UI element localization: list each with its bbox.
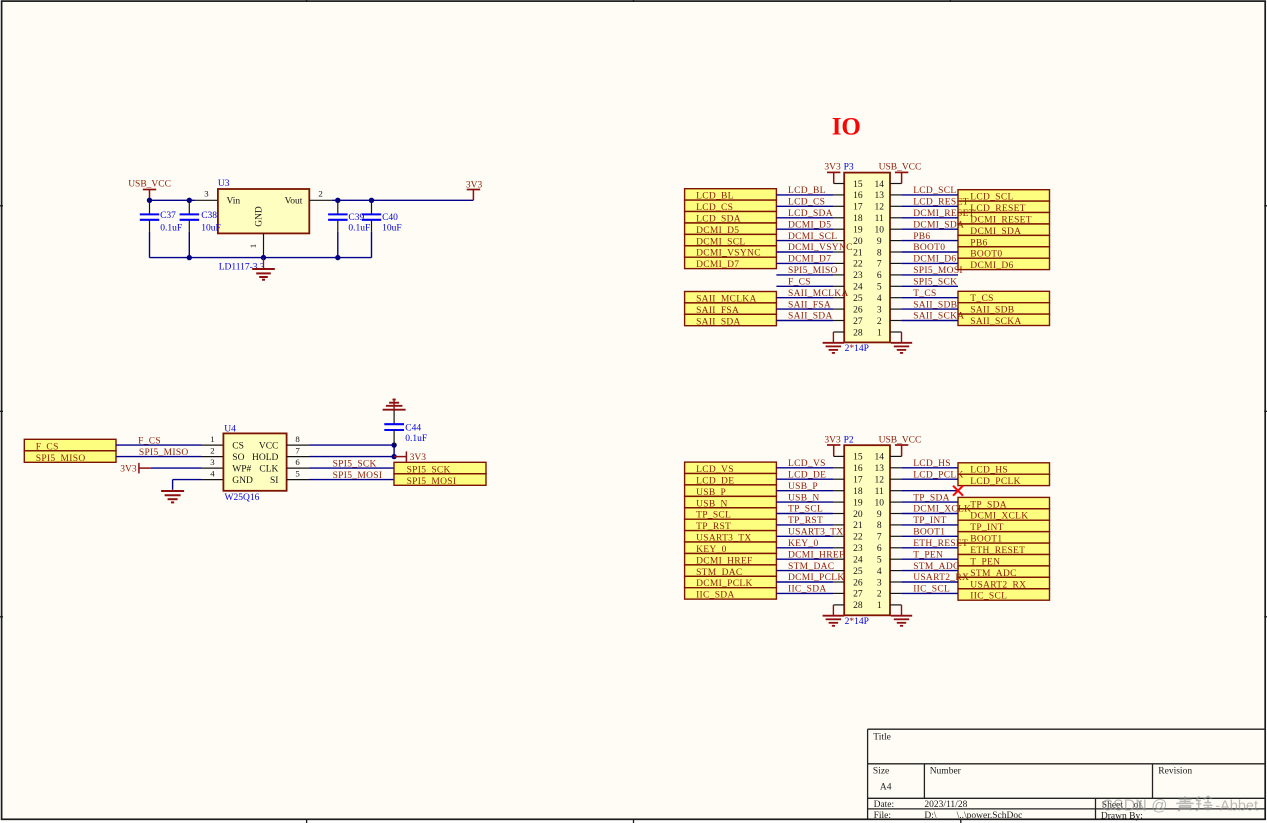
- svg-text:5: 5: [877, 283, 882, 293]
- svg-text:LCD_PCLK: LCD_PCLK: [913, 470, 963, 480]
- svg-text:IO: IO: [832, 113, 861, 140]
- svg-text:3V3: 3V3: [120, 464, 137, 474]
- svg-text:USB_VCC: USB_VCC: [879, 162, 922, 172]
- svg-text:2: 2: [210, 446, 214, 456]
- svg-text:3: 3: [204, 189, 209, 199]
- svg-text:11: 11: [875, 487, 884, 497]
- svg-text:TP_SDA: TP_SDA: [913, 493, 950, 503]
- svg-text:18: 18: [853, 214, 863, 224]
- svg-text:17: 17: [853, 203, 863, 213]
- svg-text:28: 28: [853, 328, 863, 338]
- svg-text:LCD_RESET: LCD_RESET: [913, 198, 968, 208]
- svg-text:LCD_SCL: LCD_SCL: [913, 186, 956, 196]
- svg-text:DCMI_D7: DCMI_D7: [788, 255, 831, 265]
- svg-text:SPI5_MISO: SPI5_MISO: [788, 266, 838, 276]
- svg-text:10: 10: [874, 226, 884, 236]
- svg-text:18: 18: [853, 487, 863, 497]
- svg-text:8: 8: [877, 521, 882, 531]
- svg-text:3V3: 3V3: [824, 162, 841, 172]
- svg-text:10uF: 10uF: [201, 224, 221, 234]
- svg-text:17: 17: [853, 476, 863, 486]
- svg-text:Revision: Revision: [1158, 767, 1192, 777]
- svg-text:8: 8: [877, 248, 882, 258]
- svg-text:14: 14: [874, 453, 884, 463]
- svg-text:C40: C40: [382, 213, 398, 223]
- svg-text:7: 7: [295, 446, 300, 456]
- svg-text:11: 11: [875, 214, 884, 224]
- svg-text:3: 3: [877, 578, 882, 588]
- svg-text:GND: GND: [255, 206, 265, 227]
- svg-text:Vin: Vin: [227, 197, 241, 207]
- svg-text:16: 16: [853, 191, 863, 201]
- svg-text:26: 26: [853, 305, 863, 315]
- svg-text:P2: P2: [844, 435, 854, 445]
- svg-text:21: 21: [853, 248, 863, 258]
- svg-text:3: 3: [877, 305, 882, 315]
- svg-text:LCD_CS: LCD_CS: [788, 198, 825, 208]
- svg-text:9: 9: [877, 237, 882, 247]
- svg-text:F_CS: F_CS: [788, 278, 811, 288]
- svg-text:4: 4: [877, 567, 882, 577]
- svg-text:12: 12: [874, 476, 884, 486]
- svg-text:10: 10: [874, 498, 884, 508]
- svg-text:DCMI_D6: DCMI_D6: [913, 255, 956, 265]
- svg-text:13: 13: [874, 191, 884, 201]
- svg-text:5: 5: [877, 556, 882, 566]
- svg-text:SAII_SCKA: SAII_SCKA: [913, 312, 964, 322]
- svg-text:C37: C37: [160, 211, 176, 221]
- svg-text:Vout: Vout: [285, 197, 303, 207]
- svg-text:File:: File:: [874, 811, 891, 821]
- svg-text:24: 24: [853, 283, 863, 293]
- svg-text:2*14P: 2*14P: [845, 617, 869, 627]
- svg-text:C39: C39: [348, 213, 364, 223]
- svg-text:9: 9: [877, 510, 882, 520]
- svg-text:27: 27: [853, 590, 863, 600]
- svg-text:SPI5_MISO: SPI5_MISO: [36, 454, 86, 464]
- svg-text:15: 15: [853, 180, 863, 190]
- svg-text:13: 13: [874, 464, 884, 474]
- svg-text:IIC_SCL: IIC_SCL: [970, 592, 1007, 602]
- svg-text:12: 12: [874, 203, 884, 213]
- svg-text:-Abbet: -Abbet: [1215, 799, 1258, 815]
- svg-text:19: 19: [853, 498, 863, 508]
- svg-text:CS: CS: [232, 441, 244, 451]
- svg-text:SAII_FSA: SAII_FSA: [788, 300, 831, 310]
- svg-text:ETH_RESET: ETH_RESET: [913, 539, 968, 549]
- svg-text:2*14P: 2*14P: [845, 344, 869, 354]
- svg-text:DCMI_D7: DCMI_D7: [696, 260, 739, 270]
- svg-text:20: 20: [853, 237, 863, 247]
- svg-text:2: 2: [877, 317, 882, 327]
- svg-text:LCD_DE: LCD_DE: [788, 470, 826, 480]
- svg-text:1: 1: [210, 434, 214, 444]
- svg-text:BOOT0: BOOT0: [913, 243, 945, 253]
- svg-text:USART2_RX: USART2_RX: [913, 573, 969, 583]
- svg-text:SI: SI: [270, 476, 278, 486]
- svg-text:DCMI_XCLK: DCMI_XCLK: [913, 505, 971, 515]
- svg-text:DCMI_PCLK: DCMI_PCLK: [788, 573, 845, 583]
- svg-text:T_CS: T_CS: [913, 289, 936, 299]
- svg-text:7: 7: [877, 260, 882, 270]
- svg-text:C38: C38: [201, 211, 217, 221]
- svg-text:USB_VCC: USB_VCC: [128, 179, 171, 189]
- svg-text:23: 23: [853, 271, 863, 281]
- svg-text:24: 24: [853, 556, 863, 566]
- svg-text:W25Q16: W25Q16: [225, 493, 260, 503]
- svg-text:25: 25: [853, 294, 863, 304]
- svg-text:SPI5_MOSI: SPI5_MOSI: [333, 471, 383, 481]
- svg-text:LCD_PCLK: LCD_PCLK: [970, 477, 1020, 487]
- svg-text:IIC_SDA: IIC_SDA: [696, 591, 735, 601]
- svg-text:8: 8: [295, 434, 300, 444]
- svg-text:LCD_HS: LCD_HS: [913, 459, 951, 469]
- svg-text:TP_INT: TP_INT: [913, 516, 946, 526]
- svg-text:A4: A4: [880, 783, 892, 793]
- svg-text:25: 25: [853, 567, 863, 577]
- svg-text:SPI5_SCK: SPI5_SCK: [333, 459, 377, 469]
- svg-text:KEY_0: KEY_0: [788, 539, 819, 549]
- svg-text:SPI5_MOSI: SPI5_MOSI: [407, 477, 457, 487]
- svg-text:SPI5_MISO: SPI5_MISO: [139, 448, 189, 458]
- svg-text:DCMI_D6: DCMI_D6: [970, 261, 1013, 271]
- svg-text:DCMI_VSYNC: DCMI_VSYNC: [788, 243, 853, 253]
- svg-text:4: 4: [210, 469, 215, 479]
- svg-text:SPI5_MOSI: SPI5_MOSI: [913, 266, 963, 276]
- svg-text:SAII_SDB: SAII_SDB: [913, 300, 957, 310]
- svg-text:C44: C44: [405, 423, 421, 433]
- svg-text:DCMI_D5: DCMI_D5: [788, 220, 831, 230]
- svg-text:22: 22: [853, 533, 863, 543]
- svg-text:Size: Size: [873, 767, 889, 777]
- svg-text:Title: Title: [873, 733, 891, 743]
- svg-text:2: 2: [318, 189, 322, 199]
- svg-text:0.1uF: 0.1uF: [160, 224, 182, 234]
- svg-text:LCD_BL: LCD_BL: [788, 186, 826, 196]
- svg-text:20: 20: [853, 510, 863, 520]
- svg-text:15: 15: [853, 453, 863, 463]
- svg-text:16: 16: [853, 464, 863, 474]
- svg-text:7: 7: [877, 533, 882, 543]
- svg-text:P3: P3: [844, 162, 854, 172]
- svg-text:23: 23: [853, 544, 863, 554]
- svg-text:4: 4: [877, 294, 882, 304]
- svg-text:27: 27: [853, 317, 863, 327]
- svg-text:USART3_TX: USART3_TX: [788, 528, 843, 538]
- svg-text:IIC_SDA: IIC_SDA: [788, 585, 827, 595]
- svg-text:CLK: CLK: [259, 464, 278, 474]
- svg-text:WP#: WP#: [232, 464, 251, 474]
- svg-text:SPI5_SCK: SPI5_SCK: [913, 278, 957, 288]
- svg-text:28: 28: [853, 601, 863, 611]
- svg-text:TP_SCL: TP_SCL: [788, 505, 823, 515]
- svg-text:GND: GND: [232, 476, 253, 486]
- svg-text:19: 19: [853, 226, 863, 236]
- svg-text:DCMI_RESET: DCMI_RESET: [913, 209, 975, 219]
- svg-text:SAII_SDA: SAII_SDA: [696, 317, 741, 327]
- svg-text:LD1117-3.3: LD1117-3.3: [219, 262, 265, 272]
- svg-text:1: 1: [877, 601, 882, 611]
- svg-text:PB6: PB6: [913, 232, 930, 242]
- svg-text:26: 26: [853, 578, 863, 588]
- svg-text:HOLD: HOLD: [252, 453, 279, 463]
- svg-text:22: 22: [853, 260, 863, 270]
- svg-text:14: 14: [874, 180, 884, 190]
- svg-text:1: 1: [877, 328, 882, 338]
- svg-text:6: 6: [877, 271, 882, 281]
- svg-text:2023/11/28: 2023/11/28: [924, 800, 967, 810]
- svg-text:SAII_MCLKA: SAII_MCLKA: [788, 289, 849, 299]
- svg-text:SAII_SCKA: SAII_SCKA: [970, 317, 1021, 327]
- svg-text:3V3: 3V3: [824, 435, 841, 445]
- svg-text:3: 3: [210, 457, 215, 467]
- svg-text:Number: Number: [930, 767, 962, 777]
- svg-text:CSDN @: CSDN @: [1102, 798, 1168, 815]
- svg-text:TP_RST: TP_RST: [788, 516, 823, 526]
- svg-text:2: 2: [877, 590, 882, 600]
- svg-text:LCD_VS: LCD_VS: [788, 459, 826, 469]
- svg-text:U3: U3: [218, 179, 230, 189]
- svg-text:F_CS: F_CS: [138, 436, 161, 446]
- svg-text:3V3: 3V3: [410, 453, 427, 463]
- svg-text:5: 5: [295, 469, 300, 479]
- svg-text:U4: U4: [224, 425, 236, 435]
- svg-text:DCMI_HREF: DCMI_HREF: [788, 550, 845, 560]
- svg-text:VCC: VCC: [259, 441, 279, 451]
- svg-text:STM_ADC: STM_ADC: [913, 562, 959, 572]
- svg-text:SO: SO: [232, 453, 244, 463]
- svg-text:SAII_SDA: SAII_SDA: [788, 312, 833, 322]
- svg-text:0.1uF: 0.1uF: [405, 434, 427, 444]
- svg-text:1: 1: [248, 244, 258, 248]
- svg-text:Date:: Date:: [874, 800, 895, 810]
- svg-text:DCMI_SDA: DCMI_SDA: [913, 220, 964, 230]
- svg-text:BOOT1: BOOT1: [913, 528, 945, 538]
- svg-text:USB_P: USB_P: [788, 482, 818, 492]
- svg-text:T_PEN: T_PEN: [913, 550, 943, 560]
- svg-text:0.1uF: 0.1uF: [348, 224, 370, 234]
- svg-text:\..\power.SchDoc: \..\power.SchDoc: [957, 811, 1023, 821]
- svg-text:STM_DAC: STM_DAC: [788, 562, 834, 572]
- svg-text:USB_VCC: USB_VCC: [879, 435, 922, 445]
- svg-text:LCD_SDA: LCD_SDA: [788, 209, 833, 219]
- svg-text:10uF: 10uF: [382, 224, 402, 234]
- svg-text:21: 21: [853, 521, 863, 531]
- svg-text:D:\: D:\: [924, 811, 937, 821]
- svg-text:USB_N: USB_N: [788, 493, 820, 503]
- svg-text:DCMI_SCL: DCMI_SCL: [788, 232, 837, 242]
- svg-text:IIC_SCL: IIC_SCL: [913, 585, 950, 595]
- svg-text:6: 6: [295, 457, 300, 467]
- svg-text:6: 6: [877, 544, 882, 554]
